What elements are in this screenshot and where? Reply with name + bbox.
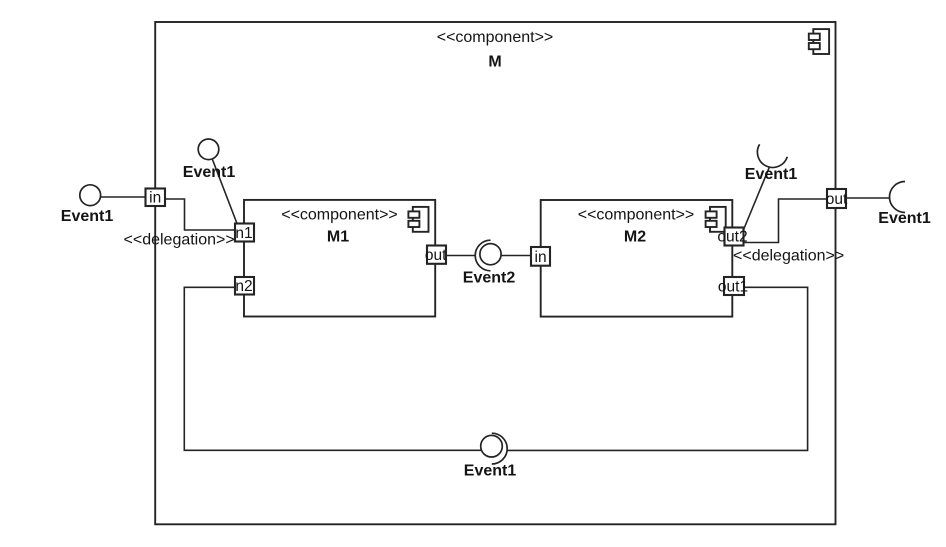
port in (M2) — [531, 247, 550, 266]
component M outer box — [155, 22, 835, 524]
svg-text:M2: M2 — [624, 229, 646, 246]
label port n2 — [235, 278, 252, 295]
component icon M — [809, 29, 829, 54]
svg-text:in: in — [149, 190, 161, 207]
svg-text:<<component>>: <<component>> — [578, 207, 695, 224]
component icon M2 — [706, 207, 726, 232]
label port n1 — [235, 225, 252, 242]
port out (M1) — [427, 246, 446, 264]
label Event1 (far right) — [878, 210, 931, 227]
assembly Event2 ball — [480, 244, 501, 265]
svg-text:out: out — [425, 247, 447, 264]
svg-text:Event1: Event1 — [61, 208, 114, 225]
label Event1 (bottom) — [464, 463, 517, 480]
wire: Event2 to port in (M2) — [501, 255, 531, 257]
label Event1 (near n1) — [183, 164, 236, 181]
wire: port out (M1) to Event2 — [446, 255, 476, 257]
svg-text:out1: out1 — [718, 279, 748, 296]
component M1 box — [244, 200, 435, 317]
svg-text:Event1: Event1 — [878, 210, 931, 227]
svg-text:Event1: Event1 — [183, 164, 236, 181]
label stereotype M — [437, 29, 554, 46]
wire: Event1 ball to port n1 (diagonal) — [212, 159, 237, 224]
wire: Event1 ball to port in (M) — [100, 196, 146, 198]
label name M — [488, 54, 501, 71]
svg-text:in: in — [535, 249, 547, 266]
label port out2 — [717, 229, 747, 246]
label Event1 (above out2) — [745, 166, 798, 183]
label port in (M) — [149, 190, 161, 207]
component icon M1 — [408, 207, 428, 232]
svg-text:out2: out2 — [717, 229, 747, 246]
label stereotype M1 — [281, 207, 398, 224]
assembly bottom Event1 ball — [481, 435, 503, 457]
wire: port out2 to Event1 socket (diagonal) — [743, 167, 769, 231]
label name M1 — [327, 229, 349, 246]
label name M2 — [624, 229, 646, 246]
required interface Event1 socket (above out2) — [757, 144, 787, 167]
port in (M) — [146, 189, 166, 207]
assembly bottom Event1 socket arc — [492, 433, 507, 464]
label port out1 — [718, 279, 748, 296]
svg-text:Event2: Event2 — [463, 270, 516, 287]
port out2 (M2) — [725, 228, 744, 246]
svg-text:<<delegation>>: <<delegation>> — [124, 231, 235, 248]
wire: port in (M) to port n1 — [165, 199, 235, 230]
required interface Event1 socket (far right) — [890, 182, 906, 213]
port n2 (M1) — [235, 277, 254, 295]
svg-text:Event1: Event1 — [464, 463, 517, 480]
svg-text:n2: n2 — [235, 278, 252, 295]
label delegation (left) — [124, 231, 235, 248]
wire: port n2 loop to bottom Event1 ball — [184, 287, 481, 450]
component M2 box — [541, 200, 733, 317]
label delegation (right) — [733, 248, 844, 265]
port out (M) — [827, 189, 846, 208]
svg-text:M1: M1 — [327, 229, 349, 246]
port out1 (M2) — [724, 277, 744, 295]
svg-text:<<delegation>>: <<delegation>> — [733, 248, 844, 265]
label port out (M1) — [425, 247, 447, 264]
svg-text:<<component>>: <<component>> — [281, 207, 398, 224]
svg-text:out: out — [826, 191, 848, 208]
wire: port out2 to port out (M) delegation — [743, 199, 827, 243]
label stereotype M2 — [578, 207, 695, 224]
svg-text:n1: n1 — [235, 225, 252, 242]
svg-text:M: M — [488, 54, 501, 71]
svg-text:Event1: Event1 — [745, 166, 798, 183]
label port in (M2) — [535, 249, 547, 266]
assembly Event2 socket arc — [475, 240, 490, 271]
svg-text:<<component>>: <<component>> — [437, 29, 554, 46]
label Event2 — [463, 270, 516, 287]
provided interface Event1 ball (left) — [80, 185, 101, 206]
wire: bottom Event1 socket to port out1 — [508, 287, 808, 450]
label port out (M) — [826, 191, 848, 208]
provided interface Event1 ball (near n1) — [198, 139, 219, 160]
label Event1 (left) — [61, 208, 114, 225]
port n1 (M1) — [235, 224, 254, 242]
wire: port out (M) to right Event1 socket — [846, 197, 890, 199]
